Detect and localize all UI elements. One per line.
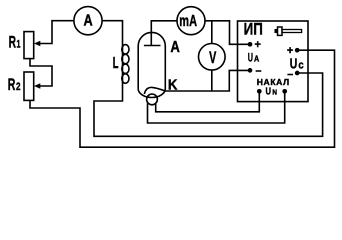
svg-text:+: +	[255, 39, 261, 51]
svg-text:U: U	[248, 51, 253, 64]
svg-text:L: L	[113, 55, 119, 72]
svg-text:1: 1	[17, 39, 21, 51]
svg-text:mA: mA	[179, 13, 197, 30]
svg-text:R: R	[9, 33, 16, 52]
svg-text:R: R	[8, 75, 16, 94]
svg-text:2: 2	[16, 81, 21, 93]
svg-text:V: V	[209, 49, 216, 67]
svg-text:N: N	[272, 88, 277, 97]
svg-text:А: А	[254, 53, 259, 63]
svg-text:c: c	[298, 60, 303, 72]
svg-text:K: K	[168, 76, 178, 93]
svg-text:ИП: ИП	[244, 19, 263, 38]
svg-text:−: −	[255, 65, 261, 77]
svg-text:A: A	[170, 39, 180, 56]
svg-text:A: A	[84, 13, 93, 30]
svg-text:U: U	[266, 87, 272, 98]
svg-text:+: +	[287, 45, 293, 57]
svg-text:НАКАЛ: НАКАЛ	[257, 77, 289, 87]
